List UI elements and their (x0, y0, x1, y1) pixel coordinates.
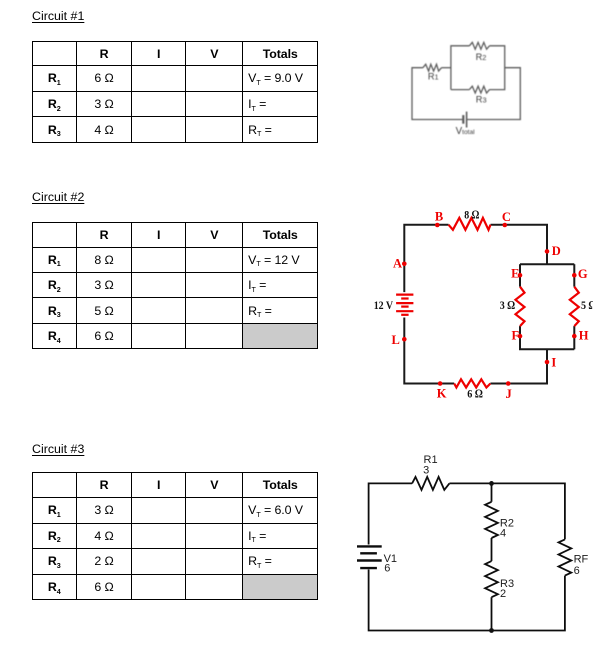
svg-text:G: G (578, 267, 588, 281)
svg-text:3: 3 (423, 464, 429, 476)
svg-text:F: F (512, 328, 520, 342)
svg-text:J: J (506, 387, 512, 401)
svg-text:K: K (437, 387, 447, 401)
svg-text:8 Ω: 8 Ω (464, 208, 479, 222)
svg-text:H: H (579, 328, 589, 342)
svg-text:12 V: 12 V (374, 298, 394, 312)
svg-text:R2: R2 (476, 52, 487, 62)
svg-text:3 Ω: 3 Ω (500, 298, 515, 312)
svg-text:6 Ω: 6 Ω (467, 386, 483, 400)
svg-text:B: B (435, 210, 443, 224)
svg-text:Vtotal: Vtotal (456, 126, 476, 137)
svg-text:5 Ω: 5 Ω (581, 298, 593, 312)
svg-text:R1: R1 (428, 71, 439, 81)
svg-text:I: I (551, 355, 556, 369)
svg-text:2: 2 (500, 588, 506, 600)
svg-text:A: A (393, 256, 402, 270)
svg-text:D: D (552, 244, 561, 258)
svg-text:RF: RF (574, 554, 589, 566)
svg-text:6: 6 (574, 565, 580, 577)
svg-text:E: E (511, 267, 519, 281)
svg-text:R3: R3 (476, 94, 487, 104)
svg-text:6: 6 (384, 563, 390, 575)
svg-text:4: 4 (500, 528, 506, 540)
svg-text:L: L (392, 333, 400, 347)
svg-text:C: C (502, 210, 511, 224)
